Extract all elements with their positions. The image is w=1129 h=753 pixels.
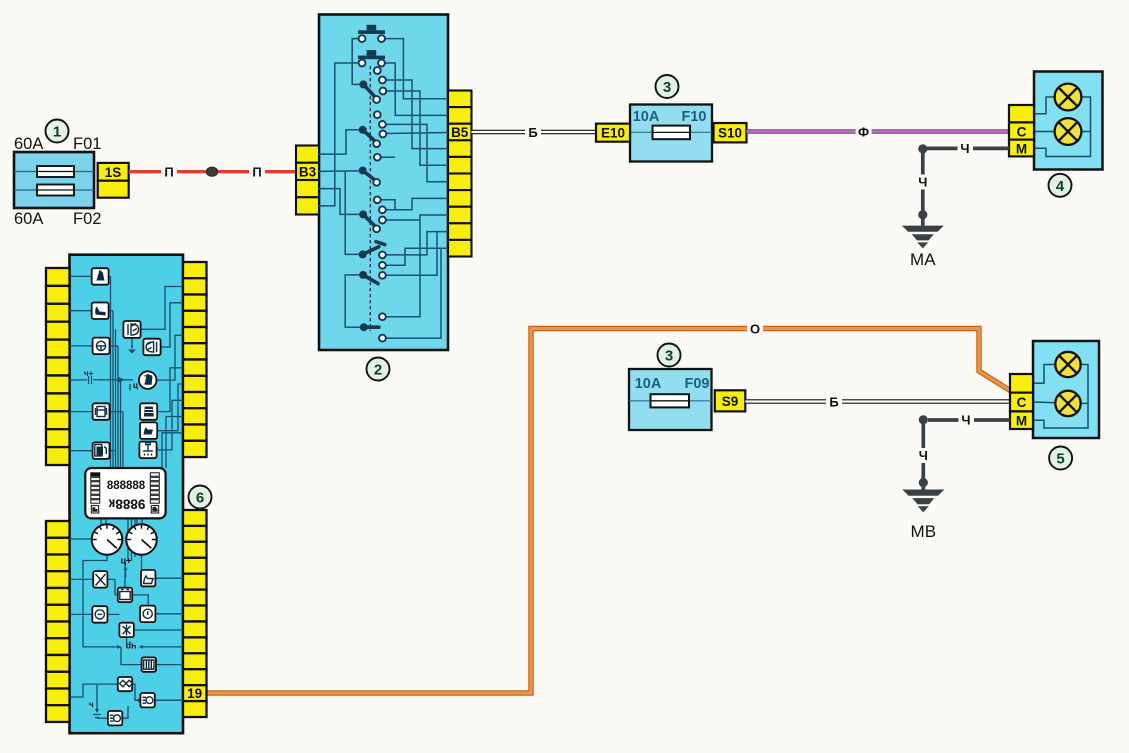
svg-text:Ч: Ч	[961, 413, 970, 428]
svg-text:888888: 888888	[107, 480, 146, 492]
svg-text:1: 1	[53, 124, 61, 141]
svg-text:Ф: Ф	[858, 124, 869, 139]
svg-text:1S: 1S	[105, 165, 122, 180]
svg-text:M: M	[1016, 141, 1027, 156]
svg-text:П: П	[164, 165, 173, 180]
svg-text:10A: 10A	[635, 376, 662, 392]
svg-text:F01: F01	[73, 135, 101, 153]
svg-text:19: 19	[187, 686, 202, 701]
svg-text:ц: ц	[133, 381, 138, 390]
svg-text:60A: 60A	[14, 210, 43, 228]
svg-text:Б: Б	[829, 394, 838, 409]
svg-text:9888к: 9888к	[108, 497, 145, 512]
svg-text:B3: B3	[299, 164, 317, 179]
svg-text:F10: F10	[682, 109, 707, 125]
svg-text:F09: F09	[685, 376, 710, 392]
svg-text:3: 3	[663, 79, 671, 96]
svg-text:О: О	[750, 321, 760, 336]
svg-text:ч+: ч+	[84, 369, 94, 378]
svg-text:П: П	[252, 165, 261, 180]
svg-text:4: 4	[1056, 178, 1065, 195]
svg-text:10A: 10A	[633, 109, 660, 125]
svg-text:Ч: Ч	[960, 141, 969, 156]
svg-text:Ч: Ч	[919, 448, 928, 463]
svg-text:5: 5	[1056, 451, 1064, 468]
svg-text:6: 6	[196, 490, 204, 507]
svg-text:C: C	[1017, 395, 1027, 410]
svg-text:Ч: Ч	[918, 175, 927, 190]
svg-text:M: M	[1016, 414, 1027, 429]
svg-text:ч: ч	[89, 700, 94, 709]
svg-text:B5: B5	[451, 125, 469, 140]
svg-text:S9: S9	[722, 394, 739, 409]
svg-text:МВ: МВ	[911, 522, 937, 541]
svg-text:Б: Б	[528, 125, 537, 140]
svg-text:60A: 60A	[14, 135, 43, 153]
svg-text:чр: чр	[125, 642, 136, 652]
svg-text:E10: E10	[601, 126, 625, 141]
svg-text:C: C	[1017, 124, 1027, 139]
svg-text:ц+: ц+	[121, 556, 132, 566]
svg-text:2: 2	[374, 362, 382, 379]
svg-text:3: 3	[665, 348, 673, 365]
svg-text:F02: F02	[73, 210, 101, 228]
svg-text:S10: S10	[718, 126, 742, 141]
svg-text:МА: МА	[910, 250, 936, 269]
